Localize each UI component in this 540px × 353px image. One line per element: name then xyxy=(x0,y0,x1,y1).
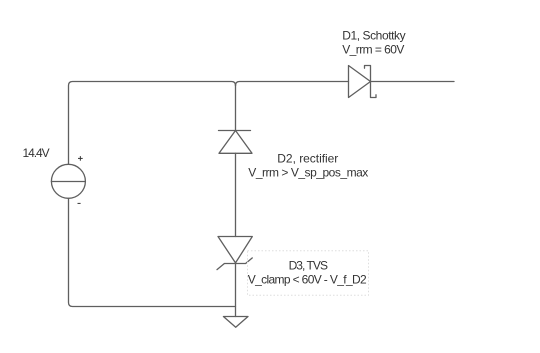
svg-text:14.4V: 14.4V xyxy=(23,146,50,160)
svg-text:D3, TVS: D3, TVS xyxy=(289,258,328,272)
svg-text:V_rrm > V_sp_pos_max: V_rrm > V_sp_pos_max xyxy=(248,165,368,179)
svg-text:V_clamp < 60V - V_f_D2: V_clamp < 60V - V_f_D2 xyxy=(248,272,367,286)
svg-text:D2, rectifier: D2, rectifier xyxy=(277,151,338,165)
svg-text:D1, Schottky: D1, Schottky xyxy=(342,29,405,43)
svg-text:V_rrm = 60V: V_rrm = 60V xyxy=(342,43,404,57)
